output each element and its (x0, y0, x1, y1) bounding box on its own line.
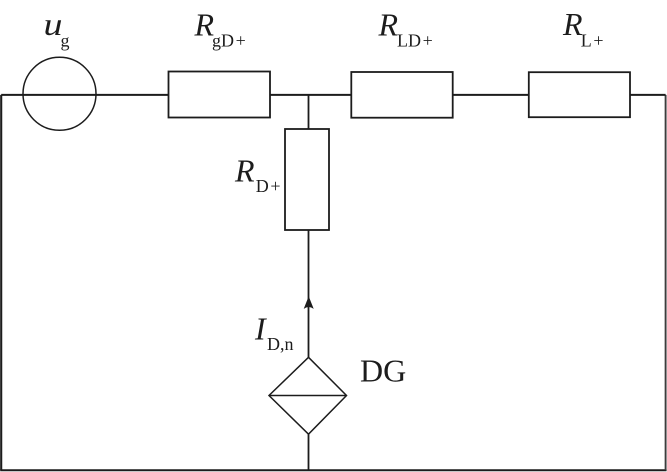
svg-text:LD+: LD+ (397, 30, 433, 50)
svg-text:I: I (254, 311, 267, 347)
svg-text:L+: L+ (581, 30, 604, 50)
svg-text:D,n: D,n (267, 334, 294, 354)
svg-text:gD+: gD+ (212, 30, 246, 50)
svg-text:R: R (234, 153, 255, 189)
svg-text:DG: DG (360, 353, 406, 389)
svg-text:R: R (378, 6, 399, 42)
svg-text:g: g (61, 30, 70, 50)
svg-text:D+: D+ (256, 176, 281, 196)
